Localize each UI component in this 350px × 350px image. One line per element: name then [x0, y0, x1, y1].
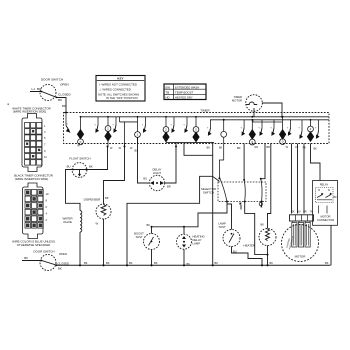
- svg-text:OR: OR: [303, 212, 307, 214]
- svg-text:BK: BK: [215, 261, 219, 265]
- svg-text:SWITCH: SWITCH: [203, 191, 214, 195]
- svg-text:Y: Y: [112, 124, 114, 126]
- svg-text:PROTECTOR: PROTECTOR: [289, 236, 295, 250]
- svg-text:TIMER: TIMER: [200, 109, 210, 113]
- svg-text:THST: THST: [218, 225, 226, 229]
- svg-text:W: W: [119, 147, 122, 150]
- svg-text:(WIRE INSERTION SIDE): (WIRE INSERTION SIDE): [13, 110, 47, 114]
- svg-text:BK: BK: [24, 256, 28, 260]
- svg-text:MOTOR: MOTOR: [295, 255, 306, 259]
- svg-text:BK: BK: [219, 147, 223, 150]
- svg-text:BU: BU: [135, 150, 139, 153]
- svg-text:CONNECTOR: CONNECTOR: [317, 218, 334, 222]
- svg-text:BK: BK: [154, 261, 158, 265]
- svg-text:BR: BR: [267, 146, 271, 149]
- svg-text:HD: HD: [166, 96, 170, 100]
- svg-text:2: 2: [195, 128, 197, 132]
- svg-text:OT: OT: [295, 146, 299, 149]
- svg-text:7: 7: [44, 143, 46, 147]
- svg-text:BR: BR: [167, 185, 171, 189]
- svg-text:Y: Y: [270, 127, 272, 129]
- svg-text:TIMER: TIMER: [234, 95, 242, 99]
- svg-text:CLOSED: CLOSED: [58, 93, 71, 97]
- svg-text:BK: BK: [106, 261, 110, 265]
- svg-text:BK: BK: [58, 267, 62, 271]
- svg-text:BK: BK: [325, 261, 329, 265]
- svg-text:Y: Y: [170, 124, 172, 126]
- svg-text:6: 6: [46, 205, 48, 209]
- svg-text:FLOAT SWITCH: FLOAT SWITCH: [69, 157, 90, 161]
- svg-text:Y: Y: [315, 127, 317, 129]
- svg-text:BK: BK: [207, 147, 211, 150]
- svg-text:HEATER: HEATER: [243, 243, 255, 247]
- svg-text:BK: BK: [62, 104, 66, 108]
- svg-text:BR: BR: [237, 147, 241, 150]
- svg-text:W: W: [286, 146, 289, 149]
- svg-text:KEY: KEY: [117, 76, 123, 80]
- svg-text:+ WIRES NOT CONNECTED: + WIRES NOT CONNECTED: [99, 83, 137, 87]
- svg-text:OR: OR: [254, 146, 258, 149]
- svg-text:Y: Y: [298, 127, 300, 129]
- svg-text:RELAY: RELAY: [320, 183, 329, 187]
- svg-text:Y: Y: [207, 127, 209, 129]
- svg-text:Y: Y: [67, 124, 69, 126]
- svg-text:Y: Y: [287, 127, 289, 129]
- svg-text:9: 9: [44, 149, 46, 153]
- svg-text:IN THE "OFF" POSITION: IN THE "OFF" POSITION: [106, 96, 138, 100]
- svg-text:BK: BK: [270, 261, 274, 265]
- svg-text:MOTOR: MOTOR: [232, 98, 242, 102]
- svg-text:2: 2: [137, 133, 139, 137]
- svg-text:2: 2: [107, 127, 109, 131]
- svg-text:Y: Y: [94, 124, 96, 126]
- svg-text:BK: BK: [261, 223, 265, 227]
- svg-text:BK: BK: [89, 164, 93, 168]
- svg-text:2: 2: [46, 218, 48, 222]
- svg-text:BU: BU: [143, 177, 147, 181]
- svg-text:4: 4: [46, 212, 48, 216]
- svg-text:⊥ WIRES CONNECTED: ⊥ WIRES CONNECTED: [99, 88, 131, 92]
- svg-text:EXTENDED WASH: EXTENDED WASH: [175, 85, 199, 89]
- svg-text:DOOR SWITCH: DOOR SWITCH: [34, 249, 55, 253]
- svg-text:OTHERWISE SPECIFIED: OTHERWISE SPECIFIED: [17, 243, 51, 247]
- svg-text:5: 5: [44, 136, 46, 140]
- svg-text:3: 3: [44, 130, 46, 134]
- svg-text:BK: BK: [58, 98, 63, 102]
- svg-text:BK: BK: [314, 148, 318, 151]
- svg-text:PK: PK: [303, 147, 307, 150]
- svg-text:W: W: [95, 222, 98, 226]
- svg-text:TN: TN: [309, 212, 312, 214]
- svg-text:(WIRE INSERTION SIDE): (WIRE INSERTION SIDE): [15, 177, 49, 181]
- svg-text:DISPENSER: DISPENSER: [84, 198, 101, 202]
- svg-text:BU: BU: [297, 212, 301, 214]
- svg-text:OPEN: OPEN: [60, 83, 69, 87]
- svg-text:10: 10: [46, 192, 49, 196]
- svg-text:TB: TB: [166, 90, 170, 94]
- svg-text:BK: BK: [291, 212, 295, 214]
- svg-text:BK: BK: [129, 261, 133, 265]
- svg-text:TEMP BOOST: TEMP BOOST: [175, 90, 194, 94]
- svg-text:L1: L1: [32, 87, 36, 91]
- svg-text:8: 8: [46, 199, 48, 203]
- svg-text:BU: BU: [233, 249, 237, 253]
- svg-text:W: W: [130, 147, 133, 150]
- svg-text:W: W: [77, 145, 80, 148]
- svg-text:EW: EW: [166, 85, 171, 89]
- svg-text:BU: BU: [67, 164, 71, 168]
- svg-text:2: 2: [165, 128, 167, 132]
- svg-text:1: 1: [44, 124, 46, 128]
- svg-text:Y: Y: [241, 127, 243, 129]
- svg-text:BP: BP: [105, 196, 109, 200]
- svg-text:OPEN: OPEN: [59, 252, 67, 256]
- svg-text:HEATED DRY: HEATED DRY: [175, 96, 193, 100]
- svg-text:W: W: [110, 147, 113, 150]
- svg-text:BK: BK: [187, 262, 191, 266]
- svg-text:DOOR SWITCH: DOOR SWITCH: [41, 78, 63, 82]
- svg-text:Y: Y: [183, 124, 185, 126]
- svg-text:CLOSED: CLOSED: [58, 261, 70, 265]
- svg-text:THST: THST: [135, 235, 143, 239]
- svg-text:11: 11: [44, 155, 47, 159]
- svg-text:LIGHT: LIGHT: [153, 171, 162, 175]
- svg-text:MOTOR: MOTOR: [321, 215, 331, 219]
- svg-text:BK: BK: [147, 223, 151, 227]
- svg-text:LAMP: LAMP: [193, 242, 201, 246]
- svg-text:2: 2: [310, 127, 312, 131]
- svg-text:Y: Y: [258, 127, 260, 129]
- svg-text:BK: BK: [334, 196, 338, 199]
- svg-text:Y: Y: [142, 124, 144, 126]
- svg-text:VALVE: VALVE: [63, 220, 72, 224]
- svg-text:BK: BK: [84, 261, 88, 265]
